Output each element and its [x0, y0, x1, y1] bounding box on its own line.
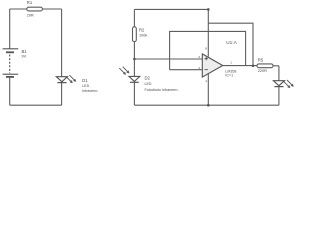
wire feedback loop — [170, 31, 246, 69]
wire D5 bottom to rail — [278, 87, 280, 106]
svg-text:IC=1: IC=1 — [225, 74, 233, 78]
svg-text:R5: R5 — [258, 58, 264, 63]
wire node down to D2 — [133, 59, 135, 76]
op-amp U1:A — [202, 54, 222, 77]
wire D2 bottom to rail — [133, 82, 135, 105]
svg-text:20R: 20R — [27, 14, 34, 18]
wire opamp output — [223, 65, 257, 67]
wire V- pin to rail — [207, 73, 209, 105]
svg-text:R1: R1 — [27, 0, 33, 5]
wire V+ pin from rail — [207, 9, 209, 56]
wire rail down to R2 — [133, 9, 135, 26]
svg-text:Fotodiodo Infraverm.: Fotodiodo Infraverm. — [145, 88, 179, 92]
svg-text:D1: D1 — [82, 78, 88, 83]
svg-text:LED: LED — [145, 82, 152, 86]
wire bottom rail right circuit — [134, 104, 279, 106]
plus symbol — [205, 57, 208, 60]
resistor R1 — [27, 7, 43, 11]
photodiode D2 — [119, 67, 140, 83]
junction dot rail/V+ — [207, 8, 210, 11]
svg-text:100k: 100k — [139, 34, 147, 38]
svg-text:R2: R2 — [139, 27, 145, 32]
wire top-left horizontal to R1 — [10, 8, 27, 10]
junction dot V-/rail — [207, 104, 210, 107]
svg-text:220R: 220R — [258, 69, 267, 73]
wire R5 to corner — [273, 65, 279, 67]
svg-text:LED: LED — [82, 84, 89, 88]
wire down to D5 — [278, 66, 280, 81]
svg-text:9V: 9V — [22, 55, 27, 59]
junction dot R2/D2/input — [133, 58, 136, 61]
wire R1 right to corner — [42, 8, 61, 10]
wire node to opamp + input — [134, 58, 202, 60]
svg-text:3: 3 — [198, 55, 200, 59]
svg-text:B1: B1 — [22, 49, 28, 54]
wire right vertical down to D1 — [61, 9, 63, 77]
resistor R2 — [133, 27, 137, 42]
wire battery bottom down — [9, 78, 11, 105]
diode D5 (LED output) — [273, 80, 293, 88]
wire left vertical down to battery — [9, 9, 11, 49]
resistor R5 — [257, 64, 273, 68]
wire bottom rail left circuit — [10, 104, 62, 106]
svg-text:U1:A: U1:A — [226, 40, 237, 45]
svg-text:D2: D2 — [145, 75, 151, 80]
wire inverting input — [170, 69, 203, 71]
battery B1 — [3, 49, 19, 77]
svg-text:1: 1 — [230, 60, 232, 64]
wire vcc branch to output node — [208, 23, 253, 66]
right circuit: top rail — [134, 8, 208, 10]
junction dot output node — [252, 65, 255, 68]
svg-text:Infraverm.: Infraverm. — [82, 89, 98, 93]
minus symbol — [205, 69, 208, 71]
svg-text:8: 8 — [205, 46, 207, 50]
diode D1 (LED) — [56, 75, 76, 83]
svg-text:4: 4 — [205, 79, 207, 83]
wire R2 bottom to node — [133, 42, 135, 59]
wire D1 bottom to rail — [61, 83, 63, 106]
